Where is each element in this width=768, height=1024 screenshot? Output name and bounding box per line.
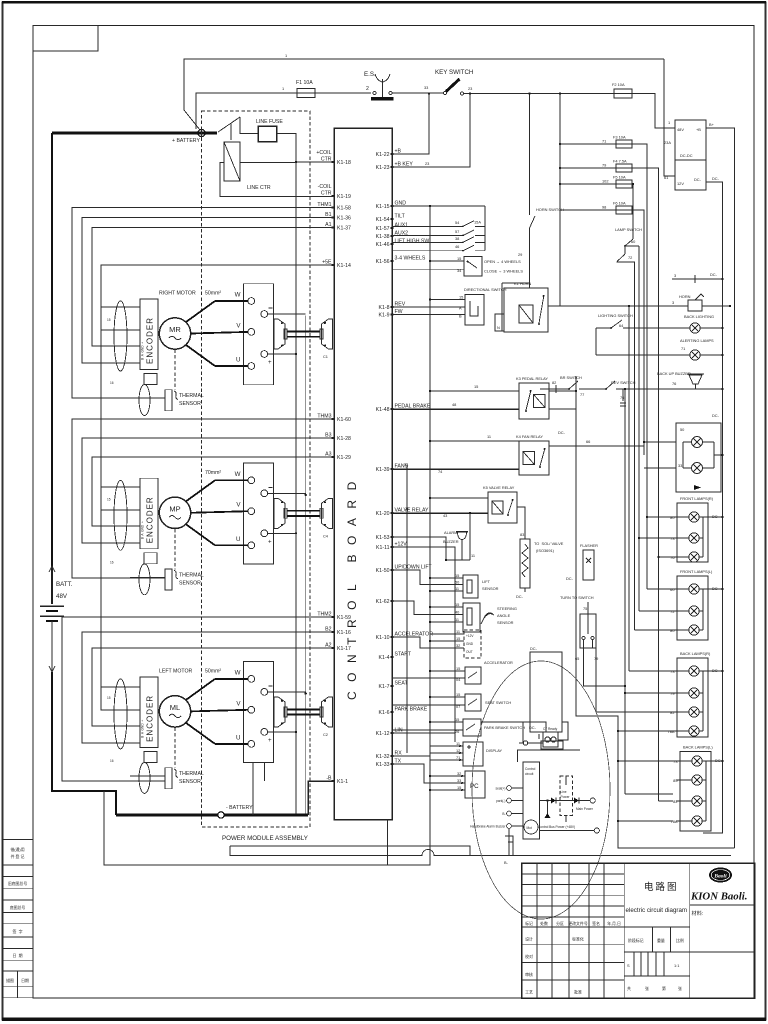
svg-text:15: 15: [455, 573, 459, 578]
control board U-K1: [334, 128, 392, 820]
fuse F6 10A: [616, 206, 632, 214]
svg-text:11: 11: [455, 617, 459, 622]
svg-text:共: 共: [627, 986, 631, 991]
svg-text:K1-46: K1-46: [376, 242, 390, 248]
svg-text:描图: 描图: [6, 978, 14, 983]
svg-text:+12V: +12V: [466, 634, 474, 638]
wire: pedal relay gnd: [429, 384, 519, 392]
wire: K1-20 valve relay: [392, 506, 488, 518]
horn switch: [518, 92, 564, 288]
svg-text:K1-60: K1-60: [337, 417, 351, 423]
svg-text:THERMAL: THERMAL: [179, 572, 204, 578]
node: + battery: [172, 128, 207, 145]
svg-text:+COIL: +COIL: [316, 150, 331, 156]
svg-text:MP: MP: [169, 504, 180, 513]
svg-text:71: 71: [681, 346, 685, 351]
wire: F6 out: [632, 210, 644, 455]
park brake switch: [392, 717, 537, 736]
fuse F3 10A: [616, 140, 632, 148]
lamp front lamps L 1: [689, 584, 699, 594]
svg-text:更改文件号: 更改文件号: [568, 921, 588, 926]
svg-text:PC: PC: [470, 783, 479, 790]
relay K3 pedal: [519, 383, 549, 419]
svg-text:LINE CTR: LINE CTR: [247, 185, 271, 191]
svg-text:校对: 校对: [525, 954, 533, 959]
svg-text:CLOSE → 3 WHEELS: CLOSE → 3 WHEELS: [484, 269, 523, 274]
svg-text:LINE FUSE: LINE FUSE: [256, 119, 283, 125]
svg-text:48V: 48V: [56, 593, 68, 600]
svg-text:重量: 重量: [657, 938, 665, 943]
svg-text:76: 76: [670, 555, 674, 560]
svg-text:借(通)用: 借(通)用: [10, 847, 24, 852]
svg-text:48: 48: [452, 402, 456, 407]
wire: ES to key switch: [392, 92, 443, 94]
svg-text:11: 11: [456, 629, 460, 634]
svg-text:2: 2: [366, 86, 369, 92]
svg-text:DC-: DC-: [712, 413, 720, 418]
svg-text:15: 15: [474, 384, 478, 389]
svg-text:F2 10A: F2 10A: [612, 82, 625, 87]
emergency stop E.S.: [364, 71, 394, 100]
svg-text:DC-: DC-: [712, 176, 720, 181]
svg-text:K5 VALVE RELAY: K5 VALVE RELAY: [483, 485, 515, 490]
svg-text:1:1: 1:1: [674, 963, 679, 968]
wire: DC-DC DC- out: [703, 176, 723, 833]
motor group LEFT MOTOR: [107, 662, 333, 794]
title block: [522, 863, 755, 998]
BR switch: [540, 375, 584, 397]
svg-text:TURN TO SWITCH: TURN TO SWITCH: [560, 595, 594, 600]
svg-text:U: U: [236, 357, 240, 364]
svg-text:46: 46: [455, 244, 459, 249]
wire: F2 to DC-DC: [632, 94, 675, 146]
svg-text:F6 10A: F6 10A: [613, 201, 626, 206]
wire: F3 out: [632, 144, 648, 589]
wire: DC- lamp rail top: [672, 272, 724, 283]
fuse F1 10A: [297, 89, 315, 98]
motor symbol in balloon: [524, 820, 538, 834]
balloon ground drop: [504, 829, 513, 865]
motor group: [107, 463, 333, 595]
svg-text:K1-1: K1-1: [337, 779, 348, 785]
svg-text:BACK LAMPS(R): BACK LAMPS(R): [680, 651, 711, 656]
wire: K1-48 pedal brake: [392, 402, 519, 409]
relay K1 HORN: [504, 288, 548, 332]
svg-text:73: 73: [673, 759, 677, 764]
svg-text:50mm²: 50mm²: [205, 291, 221, 297]
svg-text:16: 16: [110, 759, 114, 763]
lamp back lamps L 3: [692, 796, 702, 806]
wire: pedal relay out: [549, 376, 577, 409]
svg-text:签名: 签名: [592, 921, 600, 926]
svg-text:C4: C4: [323, 533, 329, 538]
fuse F4 7.5A: [616, 164, 632, 172]
svg-text:K1-58: K1-58: [337, 206, 351, 212]
wire: DC-DC 61 stub: [664, 59, 675, 176]
flasher: [566, 543, 598, 581]
svg-text:12V: 12V: [677, 181, 684, 186]
display: [392, 733, 503, 766]
svg-text:circuit: circuit: [525, 772, 533, 776]
svg-text:ENCODER: ENCODER: [146, 695, 155, 742]
lamp front lamps L 3: [689, 625, 699, 635]
wire: horn relay feed: [495, 147, 560, 331]
svg-text:BACK LAMPS(L): BACK LAMPS(L): [683, 745, 713, 750]
svg-text:ML: ML: [170, 703, 180, 712]
svg-text:82: 82: [552, 380, 556, 385]
wire: lamp feeds left: [618, 517, 673, 821]
svg-text:3: 3: [674, 273, 676, 278]
svg-text:W: W: [235, 292, 241, 299]
svg-text:KION Baoli.: KION Baoli.: [690, 891, 747, 903]
svg-text:98: 98: [602, 205, 606, 210]
svg-text:85: 85: [673, 778, 677, 783]
svg-text:K1-53: K1-53: [376, 535, 390, 541]
svg-text:Handbrake Alarm Buzzer: Handbrake Alarm Buzzer: [470, 825, 506, 829]
steering angle sensor: [392, 601, 517, 632]
wire: left motor minus drop: [253, 763, 264, 815]
wire: encoder gnd feeder: [101, 307, 140, 330]
battery BATT 48V: [40, 566, 73, 672]
wire: gnd bottom return: [104, 791, 430, 865]
wire: THM3 feeder: [72, 419, 334, 578]
svg-text:签 字: 签 字: [13, 929, 23, 934]
accelerator sensor: [392, 629, 513, 665]
svg-text:79: 79: [670, 691, 674, 696]
svg-text:SENSOR: SENSOR: [179, 779, 201, 785]
svg-text:K4 FAN RELAY: K4 FAN RELAY: [516, 434, 543, 439]
svg-text:32: 32: [457, 771, 461, 776]
svg-text:FRONT LAMPS(L): FRONT LAMPS(L): [680, 569, 713, 574]
wire: line fuse to K1-18: [277, 134, 334, 163]
wire: line ctr coil connections: [220, 162, 334, 196]
wire: F4 out: [632, 168, 660, 801]
svg-text:N: N: [497, 325, 500, 330]
svg-text:标记: 标记: [525, 921, 533, 926]
svg-text:K1-50: K1-50: [376, 568, 390, 574]
fan 1: [692, 437, 703, 448]
svg-text:设计: 设计: [525, 937, 533, 942]
svg-text:DC-: DC-: [516, 594, 524, 599]
svg-text:33: 33: [424, 85, 428, 90]
svg-text:DC-: DC-: [712, 668, 720, 673]
svg-text:K3 PEDAL RELAY: K3 PEDAL RELAY: [516, 376, 548, 381]
svg-text:OUT: OUT: [466, 650, 473, 654]
svg-text:K1-48: K1-48: [376, 407, 390, 413]
svg-text:16: 16: [110, 560, 114, 564]
wire: fan relay coil: [429, 434, 519, 442]
svg-text:LEFT MOTOR: LEFT MOTOR: [159, 668, 192, 674]
svg-text:件 登 记: 件 登 记: [11, 854, 25, 859]
wire: net 1 top rail: [184, 53, 664, 110]
lamp front lamps R 2: [689, 533, 699, 543]
svg-text:工艺: 工艺: [525, 990, 533, 995]
svg-text:C2: C2: [323, 732, 328, 737]
lamp back lamps L 1: [692, 756, 702, 766]
PC connector: [392, 756, 485, 798]
svg-text:KEY SWITCH: KEY SWITCH: [435, 69, 473, 76]
svg-text:15: 15: [107, 497, 111, 501]
rev switch: [579, 380, 690, 406]
svg-text:处数: 处数: [540, 921, 548, 926]
fuse F5 10A: [616, 180, 632, 188]
KION Baoli logo: [690, 868, 747, 903]
svg-text:76: 76: [620, 395, 624, 400]
svg-text:K1-11: K1-11: [376, 545, 390, 551]
svg-text:43: 43: [443, 513, 447, 518]
svg-text:SENSOR: SENSOR: [482, 586, 499, 591]
alarm buzzer: [392, 512, 475, 561]
svg-text:CTR: CTR: [321, 191, 332, 197]
lamp front lamps R 1: [689, 512, 699, 522]
wire: GND net: [392, 205, 485, 207]
svg-text:79: 79: [602, 163, 606, 168]
svg-text:K1-37: K1-37: [337, 226, 351, 232]
svg-text:THERMAL: THERMAL: [179, 393, 204, 399]
svg-text:B: B: [459, 314, 462, 319]
svg-text:15: 15: [455, 602, 459, 607]
lamp back lamps L 4: [692, 816, 702, 826]
wire: horn net drop: [628, 305, 630, 671]
svg-text:15A: 15A: [474, 220, 481, 225]
svg-text:B A GND +: B A GND +: [141, 342, 145, 360]
wire: B3 feeder: [82, 438, 334, 543]
wire: F1 branch: [196, 86, 297, 129]
svg-text:K1-59: K1-59: [337, 615, 351, 621]
svg-text:33: 33: [678, 463, 682, 468]
svg-text:15: 15: [457, 256, 461, 261]
svg-text:82: 82: [670, 710, 674, 715]
svg-text:33: 33: [457, 778, 461, 783]
svg-text:48V: 48V: [677, 127, 684, 132]
directional switch: [392, 287, 507, 325]
back lighting lamp: [684, 314, 724, 333]
svg-text:DC-: DC-: [694, 177, 702, 182]
svg-text:TO SOL/ VALVE: TO SOL/ VALVE: [534, 541, 564, 546]
svg-text:BACK LIGHTING: BACK LIGHTING: [684, 314, 714, 319]
svg-text:K1-7: K1-7: [379, 684, 390, 690]
svg-text:DC-: DC-: [710, 272, 718, 277]
svg-text:W: W: [235, 471, 241, 478]
svg-text:U: U: [236, 734, 240, 741]
svg-text:ALARM: ALARM: [444, 530, 457, 535]
svg-text:F1 10A: F1 10A: [296, 80, 313, 86]
svg-text:FLASHER: FLASHER: [580, 543, 598, 548]
svg-text:K1-17: K1-17: [337, 646, 351, 652]
lamp group front lamps R: [670, 496, 724, 562]
svg-text:BUZZER: BUZZER: [443, 539, 459, 544]
svg-text:审核: 审核: [525, 972, 533, 977]
svg-text:3-4 WHEELS: 3-4 WHEELS: [395, 256, 426, 262]
start switch: [392, 666, 481, 684]
wire: A2 feeder: [92, 648, 334, 726]
svg-text:标准化: 标准化: [572, 937, 584, 942]
svg-text:57: 57: [455, 229, 459, 234]
svg-text:TILT: TILT: [395, 214, 406, 220]
svg-text:LIGHTING SWITCH: LIGHTING SWITCH: [598, 313, 633, 318]
svg-text:LAMP SWITCH: LAMP SWITCH: [615, 227, 642, 232]
svg-text:23: 23: [425, 161, 429, 166]
wire: A3 feeder: [92, 457, 334, 526]
svg-text:K1-8: K1-8: [379, 305, 390, 311]
svg-text:15: 15: [456, 666, 460, 671]
lamp front lamps L 2: [689, 606, 699, 616]
wire: module internal B+ drop: [295, 161, 297, 815]
wire: thick +48V bus: [52, 132, 217, 135]
svg-text:RIGHT MOTOR: RIGHT MOTOR: [159, 291, 196, 297]
svg-text:ANGLE: ANGLE: [497, 613, 511, 618]
park brake contactor detail box: [530, 646, 562, 732]
svg-text:OPEN → 4 WHEELS: OPEN → 4 WHEELS: [484, 259, 521, 264]
svg-text:K1-10: K1-10: [376, 635, 390, 641]
wire: key switch to F2: [464, 93, 614, 95]
svg-text:11: 11: [455, 586, 459, 591]
lamp switch: [615, 227, 642, 262]
wire: bottom return: [230, 846, 731, 856]
turn to switch: [560, 595, 598, 661]
wire: board bottom drop: [387, 820, 389, 866]
wire: +5E drop group2: [101, 330, 140, 510]
svg-text:82: 82: [673, 799, 677, 804]
label: to sol valve: [534, 541, 564, 553]
svg-text:11: 11: [487, 434, 491, 439]
svg-text:C1: C1: [323, 354, 328, 359]
svg-text:15: 15: [455, 717, 459, 722]
svg-text:旧底图总号: 旧底图总号: [8, 881, 28, 886]
svg-text:102: 102: [602, 179, 609, 184]
svg-text:B A GND +: B A GND +: [141, 720, 145, 738]
line fuse: [256, 119, 283, 142]
svg-text:+: +: [268, 538, 272, 545]
svg-text:分区: 分区: [556, 921, 564, 926]
svg-text:BATT.: BATT.: [56, 581, 73, 588]
svg-text:15: 15: [459, 295, 463, 300]
svg-text:3: 3: [672, 300, 674, 305]
svg-text:29: 29: [518, 252, 522, 257]
main power branch: [540, 776, 596, 822]
DC-DC converter: [664, 120, 706, 190]
line power registance box: [560, 776, 573, 816]
wire: GND rail vertical: [429, 206, 431, 796]
wire: fans feed: [643, 441, 676, 468]
selector switch 3-4 wheels: [392, 256, 523, 276]
svg-text:W: W: [235, 669, 241, 676]
lift sensor: [392, 570, 499, 598]
svg-text:CONTROL BOARD: CONTROL BOARD: [345, 472, 359, 700]
wire: F1 to ES: [315, 92, 371, 94]
svg-text:张: 张: [678, 986, 682, 991]
svg-text:23: 23: [468, 86, 472, 91]
svg-text:K1-56: K1-56: [376, 259, 390, 265]
svg-text:MR: MR: [169, 325, 181, 334]
lamp back lamps L 2: [692, 775, 702, 785]
svg-text:77: 77: [580, 392, 584, 397]
svg-text:A: A: [459, 306, 462, 311]
svg-text:1: 1: [285, 53, 287, 58]
svg-text:阶段标记: 阶段标记: [628, 938, 644, 943]
line contactor blade: [218, 117, 258, 140]
svg-text:Power: Power: [561, 795, 571, 799]
svg-text:K1-4: K1-4: [379, 655, 390, 661]
svg-text:POWER MODULE ASSEMBLY: POWER MODULE ASSEMBLY: [222, 835, 308, 842]
wire: lamp sw out 60 link: [625, 245, 639, 247]
svg-text:23A: 23A: [664, 140, 671, 145]
svg-text:SEAT: SEAT: [395, 681, 409, 687]
wire: back lamp L row1 feed: [617, 760, 676, 762]
svg-text:73: 73: [670, 536, 674, 541]
svg-text:83: 83: [520, 532, 524, 537]
svg-text:78A: 78A: [668, 729, 675, 734]
svg-text:K1-29: K1-29: [337, 455, 351, 461]
dashed box: line contactor group: [202, 111, 311, 827]
svg-text:K1-38: K1-38: [376, 234, 390, 240]
svg-text:HORN: HORN: [679, 294, 691, 299]
svg-text:- BATTERY: - BATTERY: [226, 805, 253, 811]
wire: battery feed diagonal: [184, 110, 200, 130]
svg-text:K1-16: K1-16: [337, 630, 351, 636]
svg-text:AUX1: AUX1: [395, 223, 409, 229]
wire: fan relay out: [549, 430, 644, 446]
relay K5 valve: [488, 492, 517, 523]
svg-text:72: 72: [628, 255, 632, 260]
fans box: [676, 413, 724, 492]
switch group tilt/aux: [392, 206, 485, 252]
balloon input terminals: [470, 786, 523, 829]
svg-text:LIFT: LIFT: [482, 579, 491, 584]
wire: A1 feeder: [92, 228, 334, 347]
svg-text:78A: 78A: [671, 819, 678, 824]
svg-text:K1-39: K1-39: [376, 467, 390, 473]
wire: B2 feeder: [82, 632, 334, 743]
wire: aux rail vertical: [406, 466, 408, 753]
svg-text:F4 7.5A: F4 7.5A: [613, 159, 627, 164]
svg-text:K1-6: K1-6: [379, 710, 390, 716]
svg-text:(ISO3691): (ISO3691): [536, 548, 555, 553]
motor group RIGHT MOTOR: [107, 284, 333, 416]
svg-text:seat(+): seat(+): [495, 787, 505, 791]
svg-text:SENSOR: SENSOR: [179, 580, 201, 586]
wire: lamp DC- rail: [0, 0, 1, 1]
svg-text:15: 15: [457, 785, 461, 790]
svg-text:K1-28: K1-28: [337, 436, 351, 442]
line contactor coil: [224, 142, 271, 191]
svg-text:72: 72: [670, 609, 674, 614]
key switch S1: [424, 69, 473, 95]
svg-text:批准: 批准: [574, 990, 582, 995]
svg-text:15: 15: [456, 692, 460, 697]
control board left pin labels: [316, 150, 351, 785]
svg-text:LIFT HIGH SW: LIFT HIGH SW: [395, 239, 430, 245]
svg-text:F3 10A: F3 10A: [613, 135, 626, 140]
svg-text:16: 16: [110, 381, 114, 385]
aux contactor component: [519, 727, 563, 749]
fuse F2 10A: [614, 89, 632, 98]
svg-text:DC-: DC-: [712, 586, 720, 591]
lamp group front lamps L: [670, 569, 724, 640]
svg-text:K1-54: K1-54: [376, 217, 390, 223]
svg-text:71: 71: [602, 139, 606, 144]
svg-text:B+: B+: [709, 122, 715, 127]
svg-text:DC-DC: DC-DC: [680, 153, 693, 158]
wire: valve out to solenoid: [517, 507, 525, 539]
svg-text:1: 1: [282, 86, 284, 91]
svg-text:75: 75: [583, 606, 587, 611]
svg-text:Control: Control: [525, 767, 536, 771]
svg-text:ENCODER: ENCODER: [146, 496, 155, 543]
wire: F5 out to lamp switch: [632, 183, 634, 237]
svg-text:70mm²: 70mm²: [205, 470, 221, 476]
wire: +5E feeder: [101, 265, 334, 307]
